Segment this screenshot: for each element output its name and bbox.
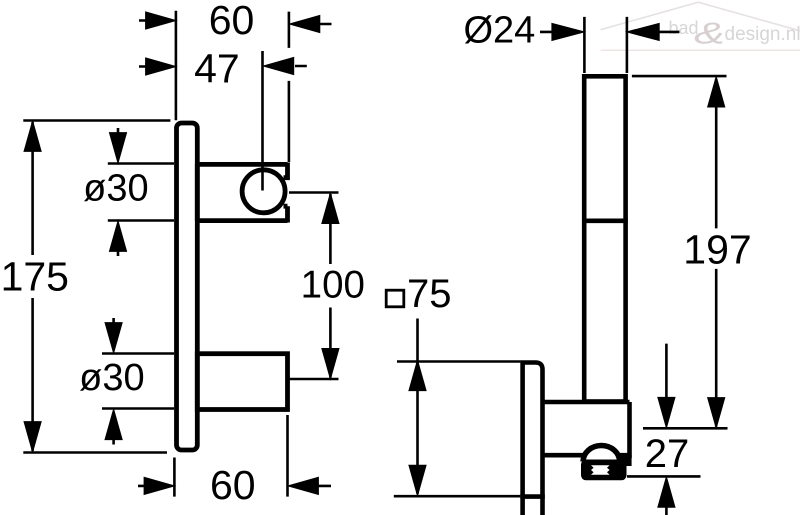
left view arrowheads [24, 12, 338, 494]
arrow Ø24 right [628, 24, 660, 41]
100 extension lines [289, 193, 339, 380]
60 top arrow tails [139, 21, 332, 25]
square75 extension lines [394, 362, 521, 497]
svg-text:ø30: ø30 [83, 167, 148, 209]
arrow 175 bottom [24, 422, 41, 452]
27 bottom line [627, 475, 701, 478]
arrow ø30 top lower [110, 222, 127, 252]
svg-text:27: 27 [645, 432, 690, 476]
right view arrowheads [409, 24, 724, 508]
square symbol of square75 [386, 290, 404, 307]
nozzle thread window [591, 465, 610, 474]
arrow square75 down [409, 465, 426, 495]
hanging bar Ø24 [584, 76, 625, 401]
arrow 27 upper [658, 398, 675, 428]
27 arrow tails [665, 344, 668, 515]
arrow bottom60 left [144, 478, 174, 495]
svg-text:Ø24: Ø24 [463, 9, 535, 51]
bottom arm (ø30) [197, 354, 287, 410]
top arm (roller ø30) [197, 163, 287, 223]
svg-text:75: 75 [407, 272, 452, 316]
arrow 60 left [146, 12, 176, 29]
bar joint seam [582, 219, 628, 224]
arrow ø30 bottom lower [105, 410, 122, 440]
ø30 bottom arrow tails [112, 318, 115, 445]
arrow 175 top [24, 122, 41, 152]
wall plate front view [177, 123, 198, 450]
arrow 27 lower [658, 478, 675, 508]
svg-text:100: 100 [301, 264, 365, 307]
svg-text:197: 197 [683, 227, 751, 273]
175 dimension line [31, 122, 34, 451]
svg-text:60: 60 [209, 0, 255, 43]
ø30 bottom extension lines [102, 354, 174, 409]
Ø24 arrow tails [540, 31, 679, 34]
ø30 top extension lines [108, 164, 174, 221]
arrow square75 up [409, 361, 426, 391]
197 top extension line [632, 75, 727, 78]
arrow 47 left [146, 58, 176, 75]
watermark house roof [601, 2, 800, 31]
watermark baseline rule [601, 49, 800, 51]
svg-text:60: 60 [210, 462, 256, 508]
svg-text:&: & [694, 16, 725, 51]
nozzle dome [583, 446, 620, 462]
arrow ø30 bottom upper [105, 323, 122, 353]
arrow 100 bottom [322, 349, 339, 379]
holder body [543, 402, 630, 458]
arrow Ø24 left [552, 24, 584, 41]
bottom 60 arrow tails [138, 485, 331, 488]
svg-text:47: 47 [194, 46, 240, 92]
arrow ø30 top upper [110, 133, 127, 163]
27 top line [643, 427, 728, 430]
svg-text:175: 175 [1, 253, 69, 299]
square75 leader line [416, 319, 419, 494]
nozzle corner fill [619, 455, 632, 467]
197 dimension line [715, 79, 718, 427]
extension line above plate left edge [175, 11, 178, 121]
ring on top arm [242, 170, 285, 213]
arrow 197 top [708, 77, 725, 107]
plate bottom seam [520, 494, 545, 499]
svg-text:design.nl: design.nl [725, 24, 800, 45]
175 extension lines [23, 121, 170, 453]
arrow bottom60 right [289, 478, 319, 495]
arrow 47 right [264, 58, 294, 75]
svg-text:ø30: ø30 [79, 357, 144, 399]
Ø24 extension lines [584, 17, 627, 73]
ø30 top arrow tails [117, 128, 120, 256]
47 arrow tails [139, 65, 307, 68]
bottom 60 extension lines [174, 415, 287, 497]
100 dimension line [329, 194, 332, 378]
extension line for 47 right (to ring centre) [261, 51, 264, 191]
nozzle nut [581, 460, 627, 481]
extension line for 60 right [288, 12, 291, 162]
arrow 60 right [290, 16, 320, 33]
arrow 100 top [322, 194, 339, 224]
arrow 197 bottom [708, 398, 725, 428]
wall plate side view [523, 363, 543, 515]
